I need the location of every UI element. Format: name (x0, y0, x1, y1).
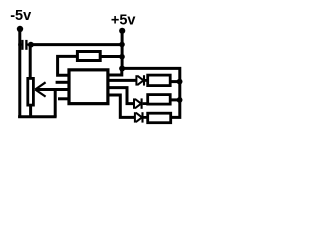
node junction dot on +5v rail bottom (119, 66, 125, 72)
wire -5v vertical rail (18, 29, 21, 118)
node +5v terminal dot (119, 28, 125, 34)
LED D2 (134, 98, 148, 108)
wire right bus (122, 68, 180, 117)
svg-text:+5v: +5v (111, 13, 136, 29)
node junction dot on +5v rail at resistor lead (119, 54, 125, 60)
wire R3 to bus (170, 80, 180, 83)
wire potentiometer wiper to IC (36, 88, 68, 91)
IC U1 (69, 70, 108, 104)
node bus dot branch1 (177, 79, 183, 85)
resistor R5 (bottom branch) (148, 113, 171, 123)
wire wiper branch down to bottom rail (54, 90, 57, 117)
node junction dot on +5v rail at top wire (119, 42, 125, 48)
pin stub IC left 3 (58, 97, 68, 100)
wire potentiometer bottom lead (29, 105, 32, 117)
svg-text:-5v: -5v (10, 8, 31, 24)
wire +5v vertical rail (121, 31, 124, 69)
node bus dot branch2 (177, 97, 183, 103)
wire IC pin D down to bottom rail (109, 95, 135, 117)
wire IC pin B to LED1 (109, 79, 136, 82)
resistor R1 (77, 52, 100, 61)
resistor R3 (top branch) (148, 75, 171, 86)
wire IC pin C step down to LED2 (109, 88, 134, 104)
potentiometer R2 body (28, 78, 34, 105)
LED D3 (135, 112, 148, 122)
pin stub IC left 2 (56, 81, 68, 84)
resistor R4 (middle branch) (148, 95, 171, 105)
wire node A to +5v rail (horizontal) (31, 43, 122, 46)
capacitor C1 (18, 40, 31, 50)
wire bottom rail (18, 115, 57, 118)
node A junction dot (cap to wires) (28, 42, 34, 48)
wire R4 to bus (170, 98, 180, 101)
wire IC pin A to +5v node (109, 69, 122, 76)
wire node A down to potentiometer top (29, 45, 32, 78)
wire resistor R1 right lead (101, 55, 123, 58)
wire resistor R1 left lead down to IC pin (58, 56, 78, 75)
LED D1 (136, 75, 148, 85)
wiper arrowhead (35, 82, 45, 96)
node -5v terminal dot (17, 26, 23, 32)
